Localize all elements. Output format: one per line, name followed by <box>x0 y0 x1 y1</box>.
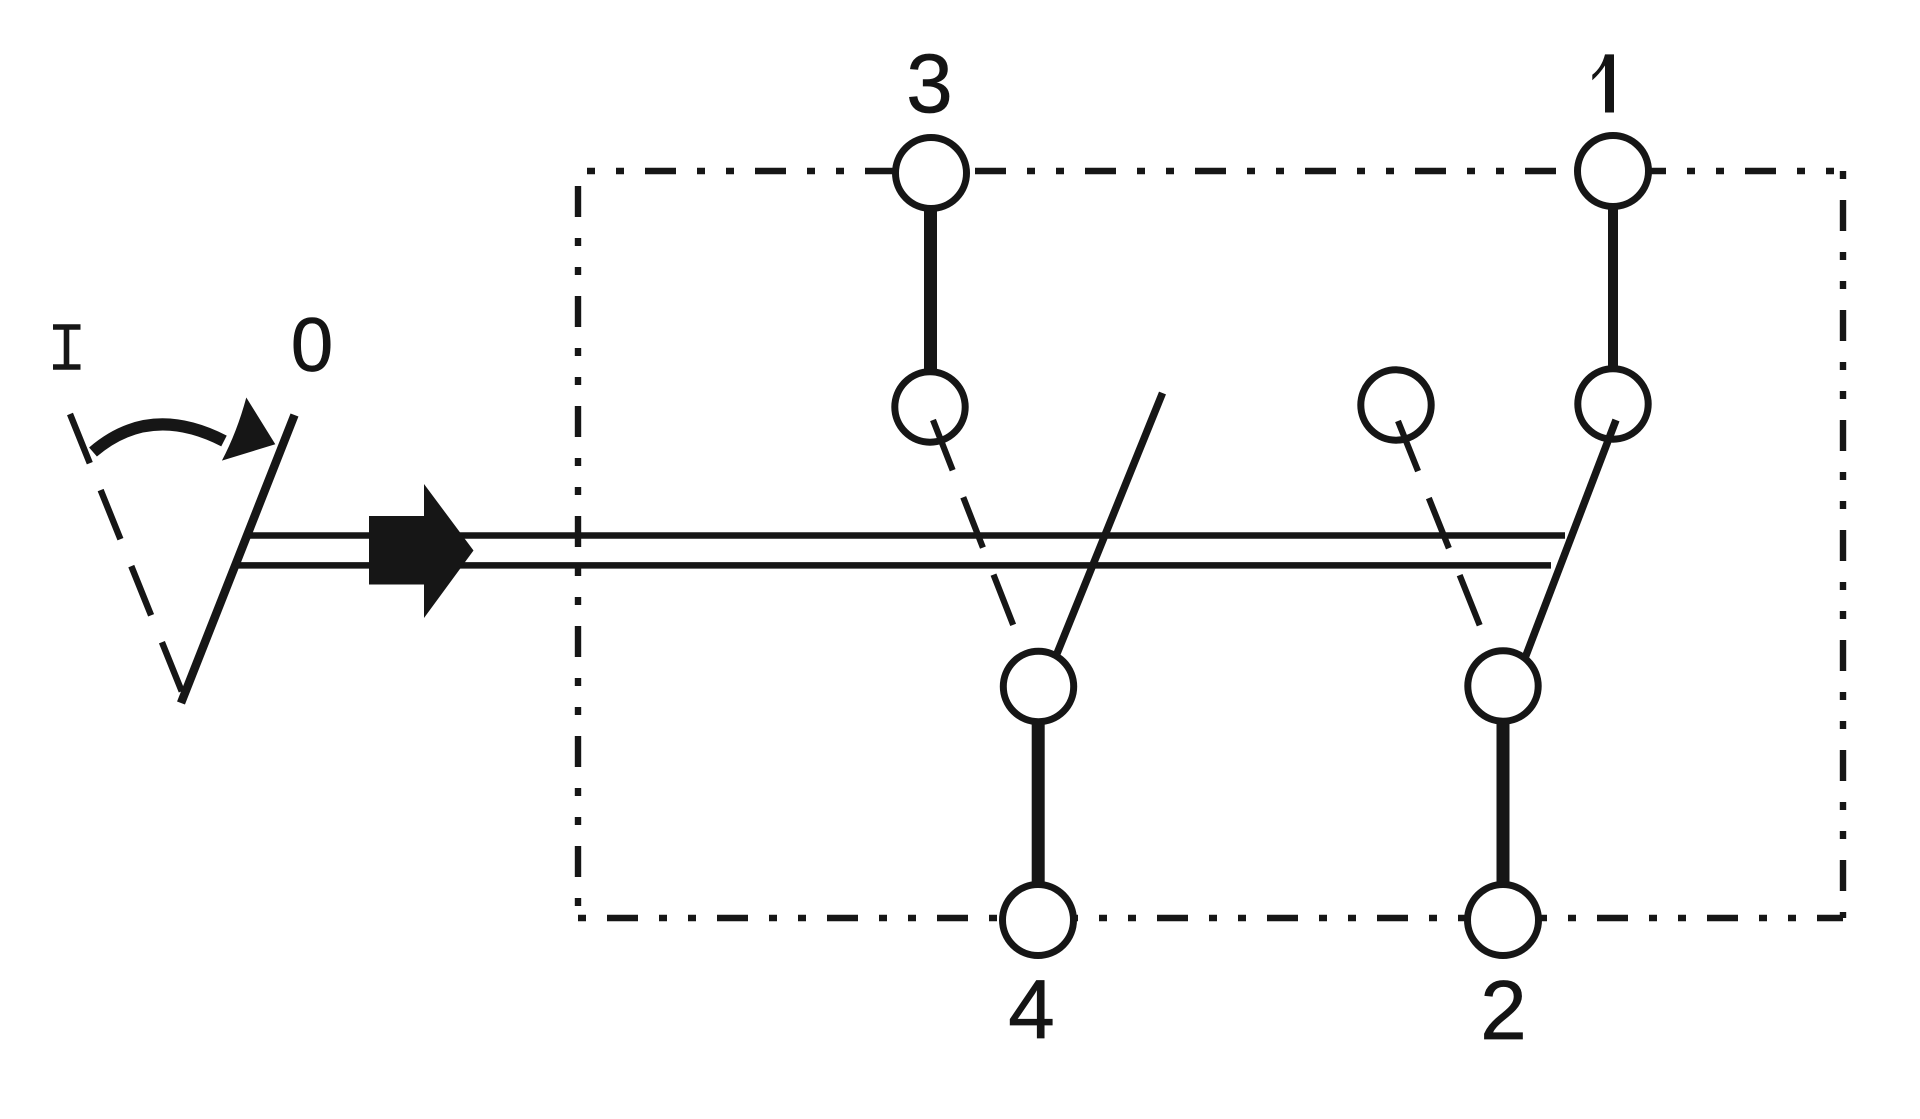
actuator bar top line <box>247 532 1565 539</box>
actuator bar bottom line <box>236 562 1551 569</box>
connector moving contact to terminal 4 (thick) <box>1032 690 1045 913</box>
enclosure dash-dot-dot border bottom <box>578 915 1843 921</box>
fixed contact circle under 3 <box>895 372 965 442</box>
svg-text:4: 4 <box>1008 962 1054 1056</box>
svg-text:0: 0 <box>291 303 333 388</box>
connector moving contact to terminal 2 (thick) <box>1497 690 1510 913</box>
terminal circle 3 <box>896 138 967 209</box>
motion-direction black arrow on bar <box>369 484 474 618</box>
terminal circle 2 <box>1468 885 1539 956</box>
terminal circle 4 <box>1003 885 1074 956</box>
pole B alternate position dashed lever <box>1398 421 1480 626</box>
label 1 <box>1592 54 1614 112</box>
pole B moving lever <box>1525 420 1616 658</box>
curved motion arrow arc <box>93 424 224 452</box>
moving contact circle above 2 <box>1468 651 1538 721</box>
svg-text:3: 3 <box>906 36 952 130</box>
handle lever position I (dashed) <box>70 414 182 692</box>
label I (position I) <box>53 327 81 367</box>
open fixed contact circle pole B <box>1361 370 1431 440</box>
enclosure dash-dot-dot border right <box>1840 171 1846 918</box>
pole A moving lever <box>1056 393 1163 656</box>
moving contact circle above 4 <box>1003 651 1073 721</box>
connector terminal 3 to fixed contact (thick) <box>924 180 937 400</box>
connector terminal 1 to fixed contact (thin) <box>1608 178 1618 398</box>
fixed contact circle under 1 <box>1578 369 1648 439</box>
enclosure dash-dot-dot border left <box>575 171 581 918</box>
handle lever position 0 (solid) <box>181 415 295 703</box>
svg-text:2: 2 <box>1480 963 1526 1057</box>
enclosure dash-dot-dot border top <box>578 168 1843 174</box>
curved motion arrow head <box>222 398 275 461</box>
pole A alternate position dashed lever <box>933 420 1014 627</box>
terminal circle 1 <box>1578 136 1649 207</box>
